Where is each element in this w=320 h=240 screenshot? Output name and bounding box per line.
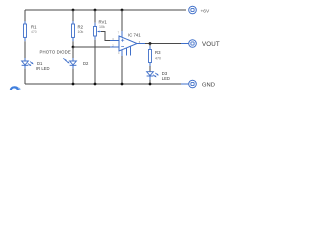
svg-text:RV1: RV1: [99, 19, 108, 24]
diode D3 LED: [147, 71, 170, 81]
node junction top rail at op-amp pin 7: [121, 9, 124, 12]
watermark logo: [10, 86, 21, 90]
pin number 4: [118, 51, 120, 55]
wire op-amp output pin 6 to VOUT: [137, 43, 189, 45]
wire R2 to node A: [72, 37, 74, 47]
wire node to R3: [149, 44, 151, 50]
svg-text:LED: LED: [162, 76, 170, 81]
svg-text:IC 741: IC 741: [128, 32, 141, 37]
resistor R2: [72, 24, 84, 37]
wire RV1 wiper to op-amp pin 3: [101, 32, 119, 41]
svg-text:GND: GND: [202, 82, 215, 88]
value label R3 470: [155, 57, 161, 61]
svg-text:PHOTO DIODE: PHOTO DIODE: [40, 50, 71, 55]
net label +6V: [201, 8, 210, 14]
wire top rail +6V: [25, 9, 186, 11]
terminal GND: [189, 80, 197, 88]
wire D2 to bottom rail: [72, 65, 74, 84]
node junction output to R3: [149, 42, 152, 45]
svg-text:R2: R2: [78, 24, 84, 29]
svg-text:4: 4: [118, 51, 120, 55]
wire R1 to D1: [24, 37, 26, 61]
wire rail to RV1: [94, 10, 96, 27]
node junction top rail at R2: [72, 9, 75, 12]
wire D3 to bottom rail: [149, 76, 151, 84]
wire R3 to D3: [149, 63, 151, 72]
pin number 3: [112, 37, 114, 41]
potentiometer RV1: [94, 19, 108, 36]
wire bottom rail GND: [25, 83, 189, 85]
value label RV1 10k: [99, 25, 105, 29]
svg-text:10k: 10k: [99, 25, 105, 29]
svg-text:+6V: +6V: [201, 8, 210, 14]
svg-text:R1: R1: [31, 24, 37, 29]
value label R2 10k: [78, 30, 84, 34]
terminal +6V: [189, 6, 197, 14]
diode D1 IR LED: [22, 61, 50, 71]
net label GND: [202, 82, 215, 88]
svg-text:R3: R3: [155, 50, 161, 55]
svg-text:10k: 10k: [78, 30, 84, 34]
pin stub offset null 1: [126, 48, 128, 56]
value label R1 470: [31, 30, 37, 34]
net label VOUT: [202, 41, 220, 48]
wire op-amp pin 4 to bottom rail: [121, 50, 123, 84]
diode D2 photodiode: [63, 57, 89, 65]
resistor R3: [149, 50, 162, 63]
svg-text:470: 470: [31, 30, 37, 34]
node junction bottom rail at pin 4: [121, 83, 124, 86]
wire rail to op-amp pin 7: [121, 10, 123, 37]
wire rail to R2: [72, 10, 74, 24]
wire node A down to D2: [72, 47, 74, 61]
svg-text:D2: D2: [83, 61, 89, 66]
node junction bottom rail at D2: [72, 83, 75, 86]
node junction bottom rail at D3: [149, 83, 152, 86]
wire node A to op-amp pin 2: [73, 46, 119, 48]
op-amp U1 IC 741: [119, 32, 141, 51]
pin number 2: [112, 43, 114, 47]
pin number 7: [118, 31, 120, 35]
svg-text:VOUT: VOUT: [202, 41, 220, 48]
resistor R1: [24, 24, 38, 37]
svg-text:IR LED: IR LED: [36, 66, 50, 71]
wire D1 to bottom rail: [24, 65, 26, 84]
terminal VOUT: [189, 40, 197, 48]
pin number 6: [139, 40, 141, 44]
wire RV1 bottom to bottom rail: [94, 36, 96, 84]
pin stub offset null 5: [130, 46, 132, 55]
svg-text:470: 470: [155, 57, 161, 61]
node junction bottom rail at RV1: [94, 83, 97, 86]
node junction top rail at RV1: [94, 9, 97, 12]
node A junction photodiode/R2 to pin2: [72, 46, 75, 49]
svg-text:7: 7: [118, 31, 120, 35]
wire left branch from rail to R1: [24, 10, 26, 24]
label PHOTO DIODE: [40, 50, 71, 55]
